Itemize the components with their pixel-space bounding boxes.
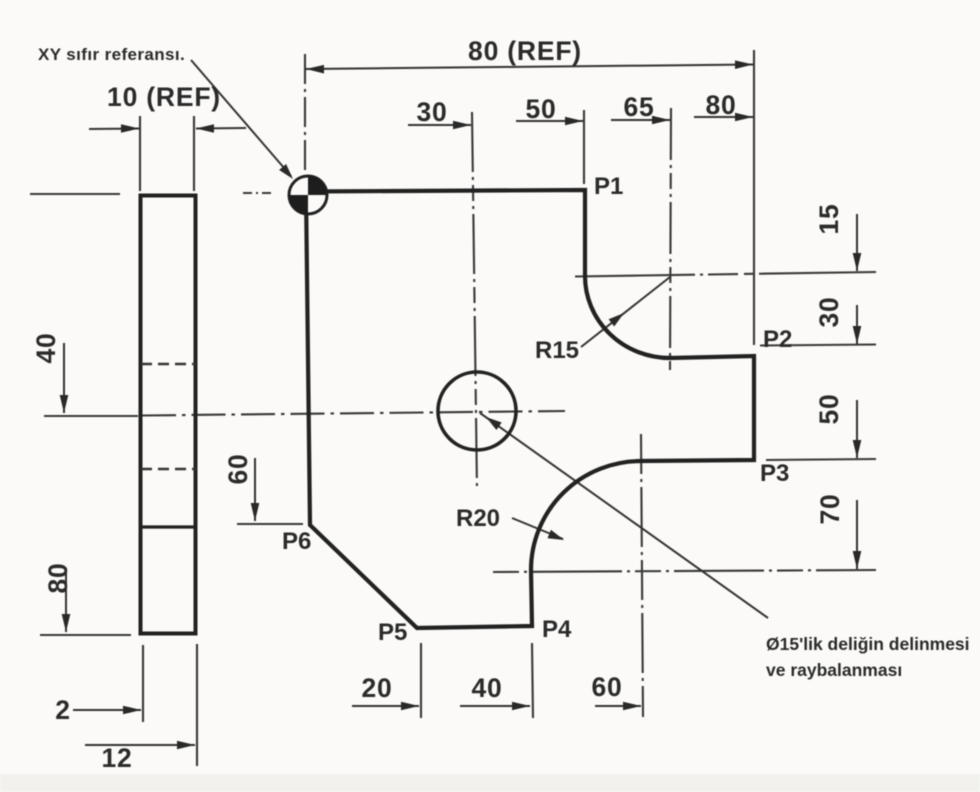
dim line 20 bottom <box>352 705 419 707</box>
svg-text:P2: P2 <box>763 326 792 353</box>
dim line 10REF right arrow line <box>196 127 246 130</box>
svg-text:60: 60 <box>591 672 622 702</box>
wire: 60-left extension to P6 <box>237 523 303 525</box>
origin symbol <box>289 176 327 214</box>
arrow hole leader <box>486 417 502 430</box>
dimension lines <box>64 65 857 746</box>
dim line 80 top <box>694 116 753 118</box>
arrow 10REF right <box>196 124 214 133</box>
dim line 60 left <box>254 458 256 521</box>
svg-text:80: 80 <box>705 90 736 120</box>
svg-text:80 (REF): 80 (REF) <box>468 36 582 66</box>
svg-text:40: 40 <box>471 673 502 703</box>
arrow 50 right <box>853 440 862 458</box>
wire: 2 extension <box>142 645 144 722</box>
wire: short dash-dot left of origin <box>243 192 272 194</box>
wire: 20 extension below P5 <box>420 643 422 718</box>
wire: 10REF right extension <box>193 116 195 191</box>
side view rectangle <box>141 196 196 634</box>
arrow 80 left <box>62 614 71 632</box>
wire: 50 extension to P1 <box>583 110 585 184</box>
svg-text:15: 15 <box>814 203 844 234</box>
leader lines <box>191 60 768 618</box>
arrow 15 right <box>853 253 862 271</box>
arrow 80REF right <box>735 60 753 69</box>
arrow R15 leader <box>609 313 624 327</box>
arrow 40 left <box>60 395 69 413</box>
wire: horizontal centerline through R20 center / 70 extension <box>493 570 876 572</box>
svg-text:10 (REF): 10 (REF) <box>107 82 221 112</box>
svg-text:P1: P1 <box>594 173 623 200</box>
svg-text:R20: R20 <box>456 505 500 532</box>
arrow 30 top <box>453 121 471 130</box>
wire: 12 extension <box>196 644 198 766</box>
svg-text:50: 50 <box>814 393 844 424</box>
wire: 40 extension below P4 <box>532 643 533 718</box>
arrow 65 top <box>652 116 670 125</box>
svg-text:30: 30 <box>416 97 447 127</box>
wire: vertical centerline through hole / 30 extension <box>472 112 477 490</box>
wire: 10REF left extension <box>139 116 141 191</box>
wire: 80 REF left extension (dash-dot vertical above origin) <box>304 54 306 178</box>
wire: 40-left extension <box>44 415 138 417</box>
dim line 80 REF <box>306 65 753 70</box>
svg-text:2: 2 <box>55 695 71 725</box>
svg-text:P3: P3 <box>760 460 789 487</box>
svg-text:20: 20 <box>361 673 392 703</box>
svg-text:P6: P6 <box>282 528 311 555</box>
arrow 12 <box>177 741 195 750</box>
svg-text:12: 12 <box>101 743 132 773</box>
wire: side view top projection line <box>30 193 120 195</box>
dim line 40 bottom <box>460 705 530 707</box>
dim line 40 left <box>63 343 65 413</box>
side view hidden line (hole top) <box>141 363 196 365</box>
part outline (main view) <box>306 190 754 628</box>
arrow 30 right <box>853 326 862 344</box>
arrow 60 left <box>251 503 260 521</box>
leader hole note <box>480 413 768 618</box>
arrow 70 right <box>853 551 862 569</box>
dim line 65 top <box>611 119 670 121</box>
svg-text:Ø15'lik deliğin delinmesi: Ø15'lik deliğin delinmesi <box>766 634 970 654</box>
dim line 10REF left arrow line <box>89 128 139 131</box>
svg-text:80: 80 <box>43 562 73 593</box>
svg-text:70: 70 <box>815 493 845 524</box>
dim line 12 <box>85 744 195 746</box>
side view solid inner line (P6 level) <box>140 525 196 528</box>
dim line 30 right <box>856 305 858 344</box>
svg-text:65: 65 <box>623 92 654 122</box>
svg-text:60: 60 <box>223 453 253 484</box>
dim line 50 right <box>856 400 858 458</box>
svg-text:R15: R15 <box>535 337 579 364</box>
leader R20 <box>512 518 563 539</box>
wire: vertical centerline through R15 center / 65 extension <box>670 108 671 370</box>
wire: P2 extension to right <box>760 345 876 346</box>
arrow 80 top <box>735 113 753 122</box>
arrow 40 bottom <box>512 702 530 711</box>
arrowheads <box>60 60 862 749</box>
arrow 60 bottom <box>623 702 641 711</box>
svg-text:XY sıfır referansı.: XY sıfır referansı. <box>38 45 185 64</box>
wire: P3 extension to right <box>766 459 876 460</box>
wire: 80-left extension <box>40 634 131 636</box>
leader R15 <box>581 277 670 347</box>
svg-text:P5: P5 <box>378 619 407 646</box>
dim line 15 right <box>856 214 858 271</box>
dim line 60 bottom <box>595 705 641 707</box>
arrow XY leader <box>279 164 293 179</box>
dim line 50 top <box>516 120 583 122</box>
wire: horizontal centerline through R15 center / 15 extension <box>575 272 876 277</box>
svg-text:P4: P4 <box>542 616 572 643</box>
svg-text:30: 30 <box>814 296 844 327</box>
dim line 70 right <box>856 500 858 569</box>
arrow 2 <box>123 706 141 715</box>
svg-text:ve raybalanması: ve raybalanması <box>766 660 902 680</box>
arrow 20 bottom <box>401 702 419 711</box>
arrow R20 leader <box>548 530 565 540</box>
leader XY zero reference <box>191 60 291 176</box>
dim line 2 <box>73 709 141 711</box>
dim line 30 top <box>408 124 471 126</box>
hole circle Ø15 <box>438 372 516 450</box>
side view hidden line (hole bottom) <box>141 468 196 470</box>
svg-text:50: 50 <box>525 94 556 124</box>
arrow 50 top <box>565 117 583 126</box>
wire: main horizontal centerline through hole and side view <box>142 411 565 416</box>
wire: vertical centerline through R20 center / 60 extension <box>641 434 643 717</box>
wire: right main extension line x=754 <box>753 50 755 345</box>
svg-text:40: 40 <box>31 332 61 363</box>
arrow 80REF left <box>306 65 324 74</box>
arrow 10REF left <box>121 124 139 133</box>
dim line 80 left <box>65 568 67 632</box>
